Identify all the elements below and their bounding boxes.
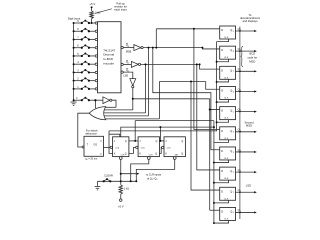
svg-text:CLR: CLR xyxy=(121,154,125,156)
svg-text:Q: Q xyxy=(181,140,183,143)
svg-text:debounce: debounce xyxy=(85,132,97,136)
svg-text:CLR: CLR xyxy=(149,154,153,156)
svg-text:Q: Q xyxy=(125,152,127,155)
svg-text:D: D xyxy=(221,109,223,113)
svg-text:2: 2 xyxy=(128,63,129,65)
svg-text:9: 9 xyxy=(240,30,241,32)
svg-text:CLK: CLK xyxy=(224,158,229,160)
svg-text:1 kΩ: 1 kΩ xyxy=(95,12,100,15)
svg-text:LSD: LSD xyxy=(246,184,251,188)
svg-text:2: 2 xyxy=(240,171,241,173)
svg-text:CLK: CLK xyxy=(115,147,120,149)
svg-text:CLK: CLK xyxy=(224,118,229,120)
svg-text:5: 5 xyxy=(233,111,234,113)
svg-text:Q: Q xyxy=(156,140,158,143)
svg-text:2: 2 xyxy=(233,172,234,174)
svg-text:8: 8 xyxy=(240,50,241,52)
svg-text:8: 8 xyxy=(233,51,234,53)
svg-text:D: D xyxy=(221,68,223,72)
svg-text:5: 5 xyxy=(240,110,241,112)
svg-text:CLK: CLK xyxy=(141,147,146,149)
svg-text:6: 6 xyxy=(240,90,241,92)
svg-text:Q: Q xyxy=(100,153,102,155)
svg-text:1: 1 xyxy=(240,191,241,193)
svg-text:7: 7 xyxy=(233,71,234,73)
svg-text:code for: code for xyxy=(247,56,257,60)
svg-text:D: D xyxy=(221,209,223,213)
svg-text:Q: Q xyxy=(181,152,183,155)
svg-text:and displays: and displays xyxy=(243,19,259,23)
svg-text:MSD: MSD xyxy=(246,124,252,128)
svg-text:CLEAR: CLEAR xyxy=(104,174,113,178)
svg-text:D: D xyxy=(221,129,223,133)
svg-text:Q: Q xyxy=(100,141,102,143)
svg-text:CLK: CLK xyxy=(224,37,229,39)
svg-text:4: 4 xyxy=(233,132,234,134)
svg-text:1: 1 xyxy=(233,192,234,194)
svg-text:3: 3 xyxy=(240,151,241,153)
svg-text:D: D xyxy=(221,48,223,52)
svg-text:CLK: CLK xyxy=(224,218,229,220)
svg-text:6: 6 xyxy=(233,91,234,93)
svg-text:to CLR inputs: to CLR inputs xyxy=(146,174,162,177)
svg-text:OS: OS xyxy=(93,143,97,146)
svg-text:D: D xyxy=(221,189,223,193)
svg-text:LSB: LSB xyxy=(123,74,128,77)
svg-text:3: 3 xyxy=(233,152,234,154)
svg-text:CLK: CLK xyxy=(224,77,229,79)
svg-text:4: 4 xyxy=(240,130,241,132)
svg-text:D: D xyxy=(221,169,223,173)
svg-text:+5 V: +5 V xyxy=(89,2,95,6)
svg-text:0: 0 xyxy=(240,211,241,213)
svg-text:CLK: CLK xyxy=(224,198,229,200)
svg-text:MSD: MSD xyxy=(249,60,255,64)
svg-text:encoder: encoder xyxy=(103,61,114,65)
svg-text:CLK: CLK xyxy=(224,57,229,59)
svg-text:D: D xyxy=(221,149,223,153)
svg-text:BCD: BCD xyxy=(249,51,255,55)
svg-text:9: 9 xyxy=(233,31,234,33)
svg-text:0: 0 xyxy=(233,212,234,214)
svg-text:1 kΩ: 1 kΩ xyxy=(124,188,129,191)
svg-text:Q: Q xyxy=(125,140,127,143)
svg-text:+5 V: +5 V xyxy=(118,205,124,209)
svg-text:CLK: CLK xyxy=(167,147,172,149)
svg-text:7: 7 xyxy=(240,70,241,72)
svg-text:Q: Q xyxy=(155,152,157,155)
svg-text:each input: each input xyxy=(114,8,127,12)
svg-text:MSB: MSB xyxy=(126,51,132,54)
svg-text:D: D xyxy=(221,88,223,92)
svg-text:3: 3 xyxy=(128,46,129,48)
svg-text:CLK: CLK xyxy=(224,138,229,140)
svg-text:CLK: CLK xyxy=(224,178,229,180)
svg-text:tW = 20 ms: tW = 20 ms xyxy=(85,157,98,161)
svg-text:1: 1 xyxy=(128,71,129,73)
svg-text:Second: Second xyxy=(244,120,254,124)
svg-text:D: D xyxy=(221,28,223,32)
svg-text:CLK: CLK xyxy=(224,97,229,99)
